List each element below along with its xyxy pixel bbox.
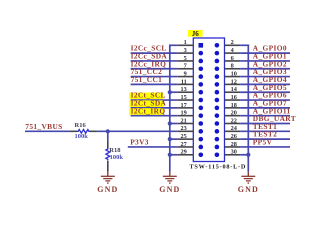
junction dot on GND rail at pin 13 <box>168 90 172 94</box>
wire net 751_CC2 (pin 9) <box>131 67 178 76</box>
svg-text:30: 30 <box>231 149 237 156</box>
wire net I2Ct_SCL (pin 15) <box>129 91 178 100</box>
junction dot on GND rail at pin 25 <box>168 137 172 141</box>
svg-text:16: 16 <box>231 94 237 101</box>
pin 4 (stub and number) <box>215 47 241 55</box>
wire net TEST2 (pin 26) <box>240 130 290 139</box>
svg-text:2: 2 <box>231 39 234 46</box>
svg-text:26: 26 <box>231 133 237 140</box>
wire pin 2 to right vertical rail <box>240 44 249 46</box>
pin 21 (stub and number) <box>178 117 203 125</box>
pin 15 (stub and number) <box>178 94 203 102</box>
pin 1 (stub and number) <box>178 39 203 47</box>
wire net TEST1 (pin 24) <box>240 122 290 131</box>
wire net I2Cc_IRQ (pin 7) <box>131 59 178 68</box>
svg-text:R16: R16 <box>75 122 87 129</box>
svg-text:13: 13 <box>181 86 187 93</box>
wire net DBG_UART (pin 22) <box>240 114 296 123</box>
pin 24 (stub and number) <box>215 125 241 133</box>
pin 23 (stub and number) <box>178 125 203 133</box>
wire junction to R18 <box>107 131 109 140</box>
svg-text:12: 12 <box>231 78 237 85</box>
pin 9 (stub and number) <box>178 70 203 78</box>
wire net A_GPIO4 (pin 12) <box>240 75 290 84</box>
pin 11 (stub and number) <box>178 78 203 86</box>
wire net 751_VBUS (R16 to pin 23) <box>98 130 178 132</box>
wire net I2Cc_SCL (pin 3) <box>131 44 178 53</box>
svg-text:21: 21 <box>181 117 187 124</box>
connector J6 body <box>193 38 224 162</box>
pin 13 (stub and number) <box>178 86 203 94</box>
svg-text:14: 14 <box>231 86 238 93</box>
pin 3 (stub and number) <box>178 47 203 55</box>
junction dot R16/R18 <box>106 129 110 133</box>
svg-text:GND: GND <box>238 185 259 194</box>
svg-text:28: 28 <box>231 141 237 148</box>
svg-text:7: 7 <box>184 63 187 70</box>
svg-text:19: 19 <box>181 110 187 117</box>
svg-text:100k: 100k <box>110 154 124 161</box>
svg-text:22: 22 <box>231 117 237 124</box>
wire net 751_VBUS (left segment to R16) <box>25 122 69 131</box>
wire net A_GPIO1 (pin 6) <box>240 52 290 61</box>
svg-text:GND: GND <box>97 185 118 194</box>
wire net I2Ct_SDA (pin 17) <box>129 98 178 107</box>
wire net A_GPIO6 (pin 16) <box>240 91 290 100</box>
wire net I2Cc_SDA (pin 5) <box>131 52 178 61</box>
junction dot on GND rail at pin 29 <box>168 153 172 157</box>
pin 16 (stub and number) <box>215 94 241 102</box>
svg-text:1: 1 <box>184 39 187 46</box>
svg-text:20: 20 <box>231 110 237 117</box>
svg-text:9: 9 <box>184 70 187 77</box>
pin 18 (stub and number) <box>215 102 241 110</box>
pin 29 (stub and number) <box>178 149 203 157</box>
resistor R18 100k (vertical) <box>106 140 123 171</box>
junction dot at pin 30 <box>246 153 250 157</box>
pin 10 (stub and number) <box>215 70 241 78</box>
svg-text:18: 18 <box>231 102 237 109</box>
ground symbol below right rail <box>238 172 259 194</box>
wire net A_GPIO11 (pin 20) <box>240 106 290 115</box>
J6 reference designator (yellow highlighted) <box>188 30 203 38</box>
pin 17 (stub and number) <box>178 102 203 110</box>
pin 26 (stub and number) <box>215 133 241 141</box>
ground symbol below left rail <box>159 172 180 194</box>
ground symbol below R18 <box>97 172 118 194</box>
pin 27 (stub and number) <box>178 141 203 149</box>
wire net 751_CC1 (pin 11) <box>131 75 178 84</box>
svg-text:751_CC1: 751_CC1 <box>131 75 163 84</box>
wire stub to pin 25 from GND rail <box>170 138 178 140</box>
pin 2 (stub and number) <box>215 39 241 47</box>
svg-text:24: 24 <box>231 125 238 132</box>
pin 19 (stub and number) <box>178 110 203 118</box>
svg-text:P3V3: P3V3 <box>130 137 149 146</box>
svg-text:23: 23 <box>181 125 187 132</box>
pin 22 (stub and number) <box>215 117 241 125</box>
pin 25 (stub and number) <box>178 133 203 141</box>
pin 28 (stub and number) <box>215 141 241 149</box>
wire stub to pin 21 from GND rail <box>170 123 178 125</box>
svg-text:J6: J6 <box>192 30 200 38</box>
svg-text:27: 27 <box>181 141 187 148</box>
pin 30 (stub and number) <box>215 149 241 157</box>
wire net A_GPIO3 (pin 10) <box>240 67 290 76</box>
svg-text:R18: R18 <box>109 147 121 154</box>
svg-text:I2Ct_IRQ: I2Ct_IRQ <box>131 106 166 115</box>
svg-text:15: 15 <box>181 94 187 101</box>
pin 14 (stub and number) <box>215 86 241 94</box>
svg-text:3: 3 <box>184 47 187 54</box>
svg-text:751_VBUS: 751_VBUS <box>25 122 62 131</box>
wire net A_GPIO2 (pin 8) <box>240 59 290 68</box>
svg-text:17: 17 <box>181 102 187 109</box>
wire right vertical rail (pin 2 to pin 30 to GND) <box>247 45 249 172</box>
wire net PP5V (pin 28) <box>240 138 290 147</box>
svg-text:29: 29 <box>181 149 187 156</box>
pin 8 (stub and number) <box>215 63 241 71</box>
wire GND bus: left vertical rail <box>169 45 171 172</box>
wire net A_GPIO0 (pin 4) <box>240 44 290 53</box>
wire GND bus: pin 1 to left vertical rail <box>169 44 178 46</box>
wire stub to pin 29 from GND rail <box>170 154 178 156</box>
pin 7 (stub and number) <box>178 63 203 71</box>
pin 12 (stub and number) <box>215 78 241 86</box>
pin 20 (stub and number) <box>215 110 241 118</box>
svg-text:PP5V: PP5V <box>253 138 273 147</box>
svg-text:8: 8 <box>231 63 234 70</box>
wire pin 30 stub to rail <box>240 154 248 156</box>
junction dot on GND rail at pin 21 <box>168 121 172 125</box>
pin 5 (stub and number) <box>178 55 203 63</box>
resistor R16 100k (horizontal) <box>69 122 97 140</box>
wire net I2Ct_IRQ (pin 19) <box>129 106 178 115</box>
wire net P3V3 (pin 27) <box>128 137 178 147</box>
svg-text:6: 6 <box>231 55 234 62</box>
svg-text:25: 25 <box>181 133 187 140</box>
wire net A_GPIO7 (pin 18) <box>240 98 290 107</box>
svg-text:GND: GND <box>159 185 180 194</box>
pin 6 (stub and number) <box>215 55 241 63</box>
svg-text:11: 11 <box>181 78 187 85</box>
svg-text:5: 5 <box>184 55 187 62</box>
svg-text:100k: 100k <box>75 133 89 140</box>
svg-text:TSW-115-08-L-D: TSW-115-08-L-D <box>190 163 247 170</box>
wire stub to pin 13 from GND rail <box>170 91 178 93</box>
wire net A_GPIO5 (pin 14) <box>240 83 290 92</box>
svg-text:10: 10 <box>231 70 237 77</box>
